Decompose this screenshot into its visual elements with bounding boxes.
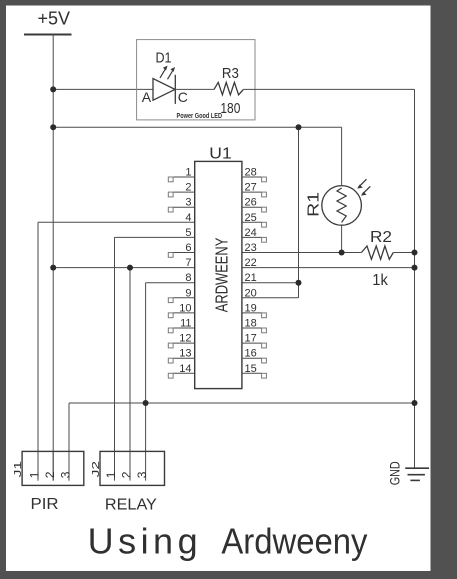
svg-text:R2: R2 — [370, 229, 392, 246]
wire pin7 row — [53, 267, 195, 269]
U1 pin 18 — [242, 318, 267, 333]
wire R1 bottom to junction — [341, 226, 343, 253]
wire R3 to GND rail — [243, 88, 414, 90]
U1 pin 9 — [168, 287, 194, 302]
svg-text:1: 1 — [28, 471, 42, 478]
U1 pin 12 — [168, 333, 194, 348]
svg-text:22: 22 — [245, 257, 257, 269]
U1 pin 11 — [168, 318, 194, 333]
svg-text:R3: R3 — [222, 65, 239, 82]
svg-text:28: 28 — [245, 167, 257, 179]
Power Good LED box — [137, 40, 255, 120]
svg-text:1k: 1k — [372, 272, 389, 289]
IC U1 body — [195, 161, 242, 388]
svg-text:2: 2 — [185, 182, 191, 194]
svg-text:RELAY: RELAY — [105, 497, 157, 514]
svg-text:6: 6 — [185, 242, 191, 254]
U1 pin 19 — [242, 302, 267, 317]
wire +5V to LED anode — [53, 88, 153, 90]
svg-text:4: 4 — [185, 212, 191, 224]
resistor R2 — [361, 246, 393, 259]
svg-text:17: 17 — [245, 333, 257, 345]
junction +5V rail / LED row — [50, 86, 56, 92]
wire J1 pin3 vertical — [68, 403, 70, 481]
svg-text:C: C — [178, 89, 188, 105]
wire pin21 to AVCC vertical — [242, 282, 299, 284]
svg-text:J1: J1 — [12, 461, 24, 478]
svg-text:11: 11 — [180, 318, 191, 330]
svg-text:PIR: PIR — [31, 496, 59, 513]
connector J2 box — [100, 451, 165, 485]
junction ground row / J2 pin 3 — [143, 400, 149, 406]
svg-text:9: 9 — [185, 287, 191, 299]
svg-text:13: 13 — [179, 348, 191, 360]
U1 pin 3 — [168, 197, 194, 212]
U1 pin 15 — [242, 363, 267, 378]
svg-text:23: 23 — [245, 242, 257, 254]
svg-text:5: 5 — [185, 227, 191, 239]
wire pin5 row — [115, 236, 195, 238]
U1 pin 16 — [242, 348, 267, 363]
svg-text:10: 10 — [179, 302, 191, 314]
svg-text:Using: Using — [88, 521, 198, 562]
svg-text:2: 2 — [120, 471, 134, 478]
svg-text:D1: D1 — [156, 50, 172, 67]
wire pin22 to GND rail — [242, 267, 415, 269]
svg-text:Power Good LED: Power Good LED — [177, 113, 223, 120]
LED D1 — [153, 66, 175, 104]
svg-text:12: 12 — [179, 333, 191, 345]
svg-text:1: 1 — [104, 471, 118, 478]
U1 pin 24 — [242, 227, 267, 242]
photoresistor R1 — [322, 179, 370, 225]
wire GND rail vertical — [414, 89, 416, 468]
junction AVCC vertical / pin 21 row — [296, 280, 302, 286]
svg-text:J2: J2 — [90, 461, 102, 478]
wire R2 to GND rail — [393, 252, 414, 254]
svg-text:20: 20 — [245, 287, 257, 299]
wire J1 pin 3 stub — [68, 451, 70, 480]
svg-text:+5V: +5V — [38, 9, 71, 29]
svg-text:Ardweeny: Ardweeny — [221, 521, 367, 562]
svg-text:16: 16 — [245, 348, 257, 360]
wire pin20 horizontal — [242, 297, 299, 299]
junction AVCC vertical / R1 row — [296, 124, 302, 130]
+5V supply symbol — [24, 9, 72, 35]
wire pin23 to R2 — [242, 252, 362, 254]
wire pin4 row — [38, 221, 195, 223]
junction pin 22 row / GND rail — [412, 265, 418, 271]
junction R1 bottom / pin 23 row — [339, 250, 345, 256]
svg-text:1: 1 — [185, 167, 191, 179]
junction R2 / GND rail — [412, 250, 418, 256]
svg-text:8: 8 — [185, 272, 191, 284]
wire J1 pin 1 stub — [37, 451, 39, 480]
wire cathode to R3 — [175, 88, 214, 90]
svg-text:18: 18 — [245, 318, 257, 330]
U1 pin 27 — [242, 182, 267, 197]
svg-text:2: 2 — [43, 471, 57, 478]
U1 pin 13 — [168, 348, 194, 363]
U1 pin 1 — [168, 167, 194, 182]
svg-text:A: A — [142, 89, 152, 105]
wire pin8 row — [146, 282, 195, 284]
resistor R3 — [214, 82, 243, 94]
wire AVCC vertical — [298, 127, 300, 297]
svg-text:180: 180 — [220, 100, 240, 117]
wire J2 pin2 vertical — [129, 268, 131, 481]
svg-text:24: 24 — [245, 227, 257, 239]
wire J1 pin 2 stub — [52, 451, 54, 480]
junction +5V rail / R1 row — [50, 124, 56, 130]
wire ground row horizontal — [69, 402, 415, 404]
U1 pin 10 — [168, 302, 194, 317]
svg-text:ARDWEENY: ARDWEENY — [212, 237, 232, 312]
wire +5V rail vertical — [52, 35, 54, 481]
U1 pin 6 — [168, 242, 194, 257]
svg-text:3: 3 — [185, 197, 191, 209]
ground symbol — [405, 468, 429, 480]
svg-text:7: 7 — [185, 257, 191, 269]
svg-text:R1: R1 — [306, 192, 323, 217]
wire pin4 down to J1 pin1 — [37, 222, 39, 480]
connector J1 box — [22, 451, 84, 485]
junction ground row / GND rail — [412, 400, 418, 406]
svg-text:14: 14 — [179, 363, 191, 375]
U1 pin 25 — [242, 212, 267, 227]
svg-text:U1: U1 — [209, 145, 232, 162]
U1 pin 14 — [168, 363, 194, 378]
svg-text:25: 25 — [245, 212, 257, 224]
U1 pin 26 — [242, 197, 267, 212]
svg-text:19: 19 — [245, 302, 257, 314]
U1 pin 2 — [168, 182, 194, 197]
svg-text:26: 26 — [245, 197, 257, 209]
junction pin 7 row / J2 pin 2 — [127, 265, 133, 271]
wire row2 down to R1 top — [341, 127, 343, 185]
svg-text:GND: GND — [387, 461, 403, 485]
svg-text:27: 27 — [245, 182, 257, 194]
U1 pin 17 — [242, 333, 267, 348]
svg-text:21: 21 — [245, 272, 257, 284]
junction +5V rail / pin 7 row — [50, 265, 56, 271]
wire pin5 down to J2 pin1 — [114, 237, 116, 480]
svg-text:3: 3 — [59, 471, 73, 478]
wire +5V row2 horizontal — [53, 126, 341, 128]
svg-text:15: 15 — [245, 363, 257, 375]
U1 pin 28 — [242, 167, 267, 182]
wire pin8 down to J2 pin3 — [145, 283, 147, 481]
svg-text:3: 3 — [135, 471, 149, 478]
